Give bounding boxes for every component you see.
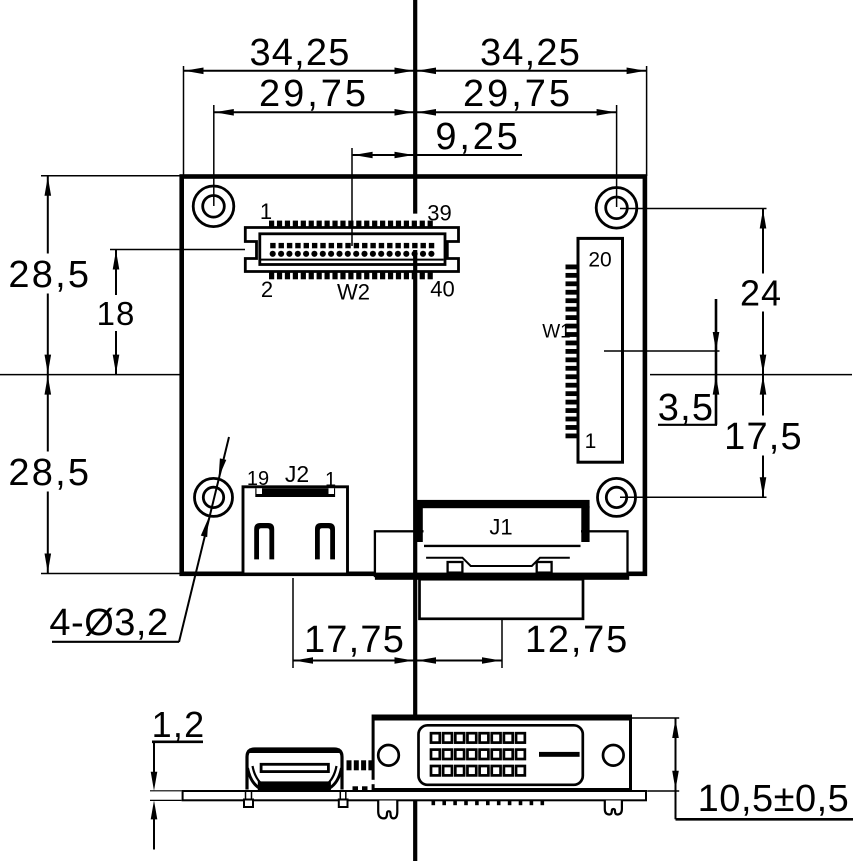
J1 side view left edge notch	[371, 780, 374, 784]
connector W2 inner shelf line	[261, 259, 444, 261]
connector W2 pin row 2 (round pads)	[270, 251, 435, 257]
svg-text:2: 2	[261, 277, 273, 302]
svg-text:20: 20	[588, 248, 611, 271]
dimension 1,2 (PCB thickness)	[150, 704, 205, 850]
connector J1 body top bar	[415, 500, 590, 508]
connector W2 pin row 1 (squares)	[270, 243, 434, 248]
dimension 3,5 with leader	[658, 299, 720, 429]
svg-text:1,2: 1,2	[152, 704, 206, 745]
connector J2 HDMI side view shell	[247, 749, 342, 790]
dimension 34,25 right	[415, 32, 647, 74]
svg-text:24: 24	[740, 273, 782, 314]
connector J1 body front edge	[424, 545, 581, 547]
svg-text:28,5: 28,5	[8, 254, 91, 296]
J1 side view pin shroud	[419, 725, 583, 785]
connector J2 left latch leg	[254, 523, 274, 559]
mounting hole bottom-right	[598, 478, 636, 516]
svg-text:17,5: 17,5	[724, 416, 803, 458]
dimension 24	[737, 209, 785, 375]
mounting hole bottom-left	[195, 478, 233, 516]
dimension 28,5 upper	[6, 176, 94, 375]
dimension 17,5	[724, 375, 804, 498]
J1 side view pin grid	[431, 733, 525, 775]
J2 side view lower-left shell fold	[248, 768, 261, 789]
leader line 4-diameter 3,2 to bottom-left hole	[49, 437, 229, 644]
connector J1 body interior	[424, 509, 582, 545]
mounting hole top-right	[596, 188, 637, 229]
svg-text:28,5: 28,5	[8, 452, 91, 494]
dimension 18	[95, 250, 137, 375]
vertical centerline upper segment	[413, 0, 417, 214]
connector J1 cable channel outline	[426, 558, 570, 566]
connector J1 body right wall	[581, 506, 589, 542]
svg-text:9,25: 9,25	[435, 116, 520, 158]
extension line top-right hole to 24 dim	[620, 208, 767, 210]
PCB board outline (top view)	[182, 177, 645, 574]
J2 side view bottom black base	[258, 781, 331, 790]
PCB board side view slab	[183, 791, 646, 800]
J2 side view through-board foot right	[339, 792, 348, 808]
svg-text:17,75: 17,75	[304, 619, 405, 661]
connector W2 top pin teeth row	[269, 221, 433, 229]
J1 side view mounting leg left	[378, 801, 397, 819]
connector J2 body outline	[243, 487, 348, 574]
extension line W2 center vertical	[351, 148, 353, 246]
svg-text:29,75: 29,75	[259, 73, 369, 115]
J2 side view lower-right shell fold	[329, 768, 342, 789]
svg-text:1: 1	[260, 199, 272, 224]
svg-text:1: 1	[585, 430, 597, 453]
W1 center extension line	[604, 350, 720, 352]
J1 mounting tab right	[537, 562, 552, 573]
svg-text:34,25: 34,25	[249, 32, 350, 74]
extension line W2 pin row (18 dim)	[110, 249, 245, 251]
connector J1 flange outline	[375, 531, 628, 576]
dimension 29,75 right	[415, 73, 617, 115]
J2 bar end notch right	[329, 488, 335, 494]
svg-text:1: 1	[325, 469, 336, 491]
svg-text:34,25: 34,25	[480, 32, 581, 74]
connector J1 body left wall	[415, 506, 423, 542]
svg-text:J1: J1	[489, 514, 512, 539]
dimension 12,75	[415, 619, 629, 664]
svg-text:39: 39	[427, 200, 451, 225]
connector J2 right latch leg	[315, 523, 335, 559]
J2 side view pins comb	[347, 760, 374, 790]
svg-text:10,5±0,5: 10,5±0,5	[698, 778, 850, 820]
svg-text:W2: W2	[337, 279, 370, 304]
dimension 10,5 plus-minus 0,5 (connector height)	[632, 718, 853, 820]
extension line board top edge (left)	[41, 175, 181, 177]
connector W1 pin ticks	[566, 265, 579, 439]
J1 side view mounting leg right	[605, 801, 622, 815]
dimension 17,75	[293, 619, 415, 664]
svg-text:40: 40	[430, 276, 454, 301]
svg-text:4-Ø3,2: 4-Ø3,2	[49, 602, 168, 644]
connector W2 body outline with side notches	[245, 228, 458, 272]
dimension 34,25 left	[184, 32, 416, 74]
connector W2 bottom pin teeth row	[269, 272, 433, 280]
extension line right hole center	[616, 105, 618, 207]
dimension 28,5 lower	[6, 375, 94, 574]
connector W1 body	[578, 238, 623, 462]
J2 bar end notch left	[257, 488, 263, 494]
extension line board left edge (top)	[183, 66, 185, 176]
J2 side view through-board foot left	[244, 792, 253, 808]
svg-text:19: 19	[247, 468, 269, 490]
svg-text:J2: J2	[285, 461, 309, 487]
J1 side view top edge thick	[374, 716, 630, 721]
J1 side view analog blade	[539, 752, 580, 757]
connector J1 bottom bar on board edge	[375, 573, 629, 580]
horizontal centerline (dash segments across drawing)	[0, 374, 852, 376]
svg-text:12,75: 12,75	[525, 619, 629, 661]
vertical centerline lower segment	[413, 250, 417, 861]
svg-text:18: 18	[97, 295, 136, 332]
dimension 9,25	[353, 116, 522, 158]
extension line left hole center	[213, 105, 215, 206]
svg-text:W1: W1	[542, 321, 571, 342]
J2 side view tongue slot	[261, 764, 328, 771]
svg-text:3,5: 3,5	[658, 387, 714, 429]
svg-text:29,75: 29,75	[463, 73, 573, 115]
extension line board bottom edge (left)	[41, 573, 181, 575]
J1 mounting tab left	[448, 562, 463, 573]
dimension 29,75 left	[214, 73, 415, 115]
J1 side view jackscrew right	[603, 745, 624, 766]
extension line bottom-right hole to 17,5 dim	[620, 496, 767, 498]
connector J1 DVI side view body	[373, 716, 630, 790]
extension line J1 center	[501, 619, 503, 668]
connector J1 rear protrusion	[420, 579, 584, 619]
extension line board right edge (top)	[646, 66, 648, 176]
connector J2 front black bar	[255, 488, 335, 497]
J1 side view jackscrew left	[378, 745, 399, 766]
mounting hole top-left	[193, 186, 234, 227]
extension line J2 center	[292, 578, 294, 668]
connector W2 inner frame	[260, 234, 445, 265]
J1 side view solder pin ticks	[432, 800, 545, 805]
J2 side view top edge thick	[249, 748, 340, 753]
